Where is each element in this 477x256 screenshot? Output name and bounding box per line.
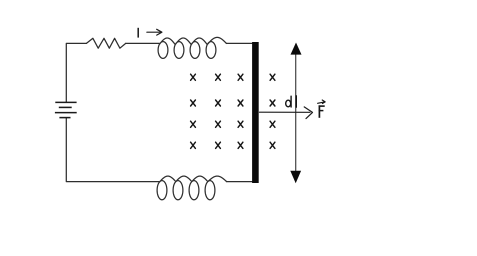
down arrowhead — [290, 171, 301, 184]
wire resistor to coil — [126, 42, 160, 44]
field mark x r3c4 — [270, 121, 275, 127]
field mark x r4c3 — [238, 142, 243, 148]
field mark x r1c2 — [216, 74, 221, 80]
current arrow — [147, 29, 162, 35]
conductor rail (thick bar) — [252, 42, 259, 183]
field mark x r1c1 — [191, 74, 196, 80]
field mark x r4c1 — [191, 142, 196, 148]
field mark x r2c1 — [191, 100, 196, 106]
wire top-left — [66, 43, 86, 102]
field mark x r2c4 — [270, 100, 275, 106]
field mark x r1c3 — [238, 74, 243, 80]
field mark x r4c2 — [216, 142, 221, 148]
battery B1 — [55, 102, 77, 117]
label dl — [286, 96, 297, 107]
F vector hat arrow — [318, 100, 326, 104]
label I — [137, 28, 139, 38]
label F — [319, 105, 325, 117]
dl direction arrow — [260, 107, 313, 119]
field mark x r2c2 — [216, 100, 221, 106]
field mark x r3c1 — [191, 121, 196, 127]
field mark x r1c4 — [270, 74, 275, 80]
inductor L1 top coil — [158, 37, 226, 58]
wire bottom-left — [66, 118, 160, 182]
field mark x r2c3 — [238, 100, 243, 106]
inductor L2 bottom coil — [157, 176, 227, 200]
length double arrow stem — [295, 53, 297, 172]
field mark x r4c4 — [270, 142, 275, 148]
field mark x r3c2 — [216, 121, 221, 127]
up arrowhead — [291, 43, 302, 55]
wire coil to rail top — [226, 42, 252, 44]
field mark x r3c3 — [238, 121, 243, 127]
resistor R — [86, 38, 125, 48]
wire coil to rail bottom — [227, 181, 253, 183]
